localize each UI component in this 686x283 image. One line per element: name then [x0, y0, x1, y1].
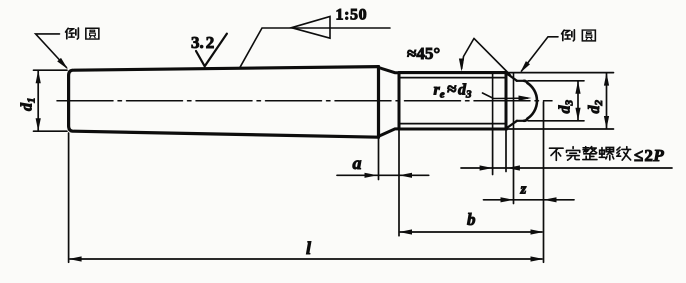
- tip chamfer 45deg: [507, 73, 518, 128]
- svg-text:d3: d3: [557, 100, 576, 114]
- taper leader line: [240, 28, 390, 67]
- extension line thread start: [398, 130, 400, 236]
- extension line pin tip: [543, 102, 545, 262]
- char zheng: [583, 147, 597, 160]
- thread minor diameter lines: [399, 78, 506, 124]
- dimension a: [337, 174, 429, 176]
- char bu: [549, 148, 563, 160]
- rounded tip dome: [524, 81, 537, 121]
- extension line tip rounding: [513, 129, 515, 204]
- svg-text:b: b: [467, 210, 476, 229]
- tip rounding line: [513, 74, 515, 129]
- centerline: [57, 100, 552, 102]
- extension line thread end: [505, 130, 507, 172]
- dimension b: [400, 231, 542, 233]
- svg-text:z: z: [520, 182, 527, 198]
- leader fillet left: [36, 34, 67, 68]
- leader re approx d3: [483, 93, 528, 99]
- shoulder cone to thread: [379, 68, 400, 137]
- dimension d1 extension lines: [34, 70, 68, 131]
- char luo: [599, 147, 613, 160]
- svg-text:1:50: 1:50: [336, 7, 368, 24]
- label daoyuan right: [562, 30, 596, 41]
- dimension d3 line: [577, 82, 579, 120]
- label daoyuan left: [66, 28, 99, 39]
- taper flag triangle: [292, 17, 331, 39]
- svg-text:≈45°: ≈45°: [407, 44, 440, 63]
- svg-text:a: a: [353, 153, 362, 173]
- leader fillet right: [522, 37, 559, 71]
- dimension z: [484, 199, 575, 201]
- char wen: [617, 147, 631, 161]
- dimension d2 line: [606, 73, 608, 128]
- dimension d3 extension lines: [528, 81, 584, 121]
- incomplete thread callout line: [461, 167, 672, 169]
- full-thread end line: [492, 73, 494, 129]
- dimension d1 line: [37, 71, 39, 130]
- roughness symbol 3.2: [196, 34, 227, 67]
- thread end face: [505, 73, 508, 129]
- label incomplete thread: [549, 147, 630, 161]
- tip cylinder lines: [517, 81, 526, 121]
- pin body large-end face: [377, 67, 380, 138]
- svg-text:d1: d1: [19, 98, 38, 112]
- char wan: [567, 147, 580, 160]
- extension line left end: [68, 133, 70, 262]
- dimension d2 extension lines: [508, 73, 614, 129]
- thread major diameter lines: [399, 73, 507, 129]
- svg-text:3.2: 3.2: [191, 33, 214, 52]
- svg-text:l: l: [306, 238, 311, 258]
- svg-text:≤2P: ≤2P: [634, 146, 664, 165]
- pin body outline: [69, 67, 379, 138]
- extension line full thread end: [492, 130, 494, 175]
- dimension l: [70, 258, 542, 260]
- thread start face: [398, 73, 401, 129]
- svg-text:d2: d2: [586, 100, 605, 114]
- svg-text:re≈d3: re≈d3: [434, 80, 472, 101]
- extension line body end: [378, 139, 380, 180]
- chamfer angle annotation: [462, 38, 511, 75]
